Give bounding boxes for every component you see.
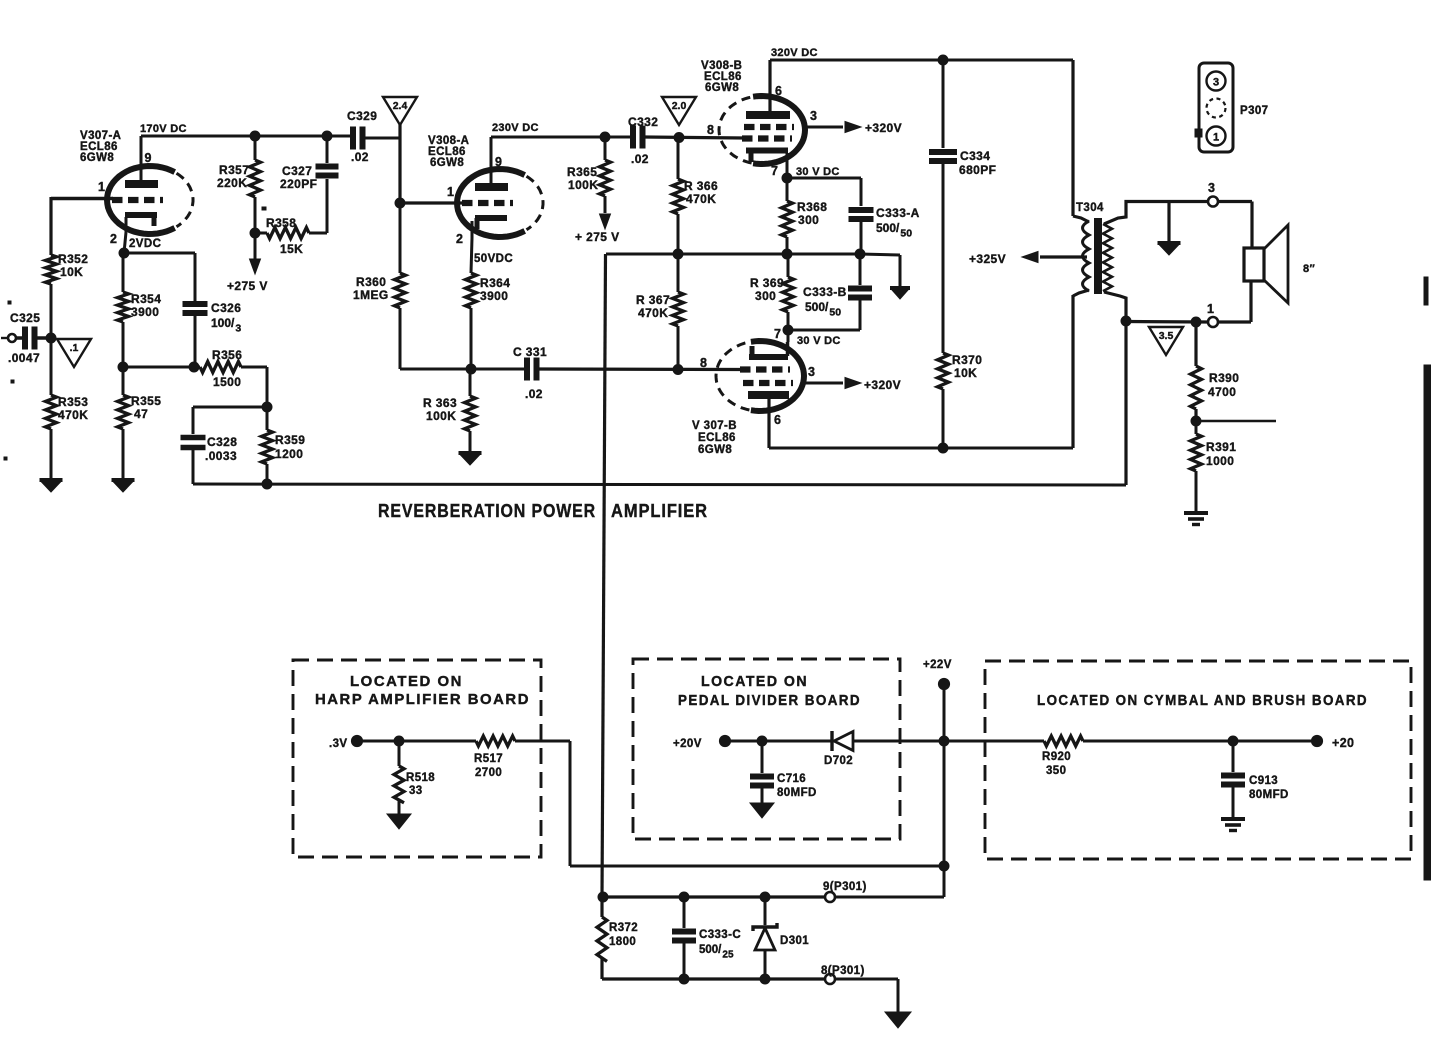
resistor R353 470K	[46, 338, 89, 479]
wire to ground (P301-8)	[897, 979, 900, 1013]
svg-text:1: 1	[1207, 302, 1214, 316]
svg-text:500/25: 500/25	[699, 944, 734, 961]
svg-text:6: 6	[775, 84, 782, 98]
diode D702	[824, 731, 944, 767]
svg-text:320V DC: 320V DC	[771, 47, 818, 59]
svg-text:8″: 8″	[1303, 263, 1316, 275]
svg-text:R518: R518	[406, 772, 435, 784]
junction (C716)	[757, 736, 767, 746]
svg-text:R360: R360	[356, 275, 386, 289]
svg-text:+20: +20	[1332, 736, 1354, 750]
label 30VDC upper	[796, 166, 840, 178]
junction (R390/R391 tap)	[1191, 416, 1276, 426]
junction (R359 / feedback bus)	[262, 479, 272, 489]
svg-text:R372: R372	[609, 922, 638, 934]
svg-text:R357: R357	[219, 163, 249, 177]
svg-text:3: 3	[1213, 77, 1219, 89]
ground (R355)	[112, 480, 135, 492]
V307-A cathode (pin 2)	[110, 215, 161, 253]
junction (+22V / harp wire)	[939, 861, 949, 871]
resistor R517 2700	[474, 736, 570, 779]
svg-text:9: 9	[495, 155, 502, 169]
terminal +20V	[673, 735, 832, 750]
speaker 8 inch	[1244, 225, 1316, 303]
ground (R518)	[387, 814, 411, 829]
svg-text:47: 47	[134, 407, 148, 421]
resistor R363 100K	[423, 369, 476, 451]
resistor R365 100K	[567, 137, 611, 213]
svg-text:C716: C716	[777, 773, 806, 785]
svg-text:500/50: 500/50	[876, 221, 912, 240]
junction (R367 / grid line)	[673, 365, 683, 375]
ground (secondary top)	[1158, 201, 1181, 255]
svg-text:2: 2	[110, 232, 117, 246]
resistor R370 10K	[938, 353, 983, 448]
svg-text:R354: R354	[131, 292, 161, 306]
level note triangle 3.5	[1149, 327, 1183, 355]
ground (P301-8)	[885, 1012, 911, 1028]
scan edge bar	[1424, 277, 1431, 880]
svg-text:80MFD: 80MFD	[777, 787, 817, 799]
svg-text:2: 2	[456, 232, 463, 246]
resistor R391 1000	[1191, 421, 1237, 511]
svg-text:R 366: R 366	[684, 179, 718, 193]
svg-text:C333-A: C333-A	[876, 206, 920, 220]
svg-text:R353: R353	[58, 395, 88, 409]
svg-text:80MFD: 80MFD	[1249, 789, 1289, 801]
junction (long vertical / 22V line)	[598, 892, 608, 902]
svg-text:D702: D702	[824, 755, 853, 767]
svg-text:C326: C326	[211, 301, 241, 315]
svg-text:+325V: +325V	[969, 252, 1006, 266]
wire long vertical to 22V supply	[602, 254, 606, 897]
+275V supply arrow (R365)	[575, 214, 620, 244]
tube V307-A ECL86 6GW8 envelope	[80, 130, 193, 234]
svg-text:REVERBERATION POWER: REVERBERATION POWER	[378, 500, 596, 521]
capacitor C328 .0033	[181, 407, 238, 484]
wire cathode node V307-A	[119, 248, 195, 258]
dashed box HARP AMPLIFIER BOARD	[293, 660, 541, 857]
terminal +20 (cymbal board)	[1311, 735, 1354, 750]
resistor R358 15K	[250, 216, 327, 256]
svg-text:3: 3	[1208, 181, 1215, 195]
V307-A plate (pin 9)	[125, 136, 158, 184]
ground (C333 mid)	[890, 288, 910, 299]
level note triangle 2.4	[383, 97, 417, 125]
svg-text:300: 300	[755, 289, 776, 303]
V308-B control grid (pin 8)	[707, 123, 792, 139]
capacitor C332 .02	[628, 115, 744, 166]
svg-text:470K: 470K	[58, 408, 88, 422]
junction (R366/R367 bias)	[673, 249, 683, 259]
ground (C716)	[750, 803, 774, 818]
svg-text:33: 33	[409, 785, 423, 797]
svg-text:7: 7	[774, 327, 781, 341]
svg-text:1: 1	[1213, 132, 1219, 144]
tube V308-A ECL86 6GW8 envelope	[428, 135, 543, 237]
terminal 3 (P307)	[1208, 181, 1252, 249]
resistor R354 3900	[118, 253, 162, 367]
svg-text:R 363: R 363	[423, 396, 457, 410]
svg-text:.1: .1	[70, 342, 79, 354]
wire 22V to P301-9 line	[835, 896, 944, 899]
V308-A cathode (pin 2)	[456, 218, 513, 273]
svg-text:R355: R355	[131, 394, 161, 408]
svg-text:+20V: +20V	[673, 738, 702, 750]
junction (R357 / 170V rail)	[250, 131, 260, 141]
svg-text:2VDC: 2VDC	[129, 238, 161, 250]
svg-text:C913: C913	[1249, 775, 1278, 787]
svg-text:D301: D301	[780, 935, 809, 947]
wire bottom return	[602, 977, 825, 980]
capacitor C716 80MFD	[750, 741, 817, 805]
svg-text:1: 1	[98, 180, 105, 194]
resistor R518 33	[394, 741, 435, 816]
svg-text:R352: R352	[58, 252, 88, 266]
dashed box CYMBAL AND BRUSH BOARD	[985, 661, 1411, 859]
transformer T304 core	[1094, 218, 1102, 294]
connector P307	[1195, 63, 1268, 152]
input jack node	[1, 334, 16, 342]
svg-text:6GW8: 6GW8	[80, 152, 114, 164]
ground (R391)	[1184, 513, 1208, 525]
capacitor C333-A 500/50	[849, 178, 920, 254]
svg-text:R920: R920	[1042, 751, 1071, 763]
ground (R353)	[40, 480, 63, 492]
svg-text:3: 3	[808, 365, 815, 379]
svg-text:.3V: .3V	[329, 738, 347, 750]
supply arrow +325V (primary CT)	[969, 252, 1087, 267]
svg-text:220K: 220K	[217, 176, 247, 190]
V307-B control grid (pin 8)	[700, 356, 790, 370]
junction (R368/R369)	[782, 249, 792, 259]
svg-text:9: 9	[145, 151, 152, 165]
junction (C334 / 320V rail)	[938, 55, 948, 65]
level note triangle 2.0	[662, 97, 696, 125]
svg-text:3: 3	[810, 109, 817, 123]
svg-text:170V DC: 170V DC	[140, 123, 187, 135]
svg-text:LOCATED ON: LOCATED ON	[350, 674, 463, 690]
svg-text:R365: R365	[567, 165, 597, 179]
svg-text:2.0: 2.0	[672, 100, 687, 112]
wire secondary bottom	[1126, 320, 1208, 324]
V308-A grid (pin 1)	[447, 185, 513, 203]
svg-text:9(P301): 9(P301)	[823, 881, 867, 893]
resistor R372 1800	[597, 897, 638, 979]
svg-text:R368: R368	[797, 200, 827, 214]
svg-text:C328: C328	[207, 435, 237, 449]
svg-text:100/3: 100/3	[211, 316, 241, 335]
svg-text:C333-C: C333-C	[699, 929, 741, 941]
svg-text:.02: .02	[351, 150, 369, 164]
resistor R367 470K	[636, 254, 684, 369]
svg-text:R391: R391	[1206, 440, 1236, 454]
svg-text:3900: 3900	[131, 305, 159, 319]
ground stub (C333 midpoint)	[860, 254, 900, 286]
svg-text:+320V: +320V	[864, 378, 901, 392]
svg-text:.0033: .0033	[205, 449, 237, 463]
svg-text:R358: R358	[266, 216, 296, 230]
junction (R370 / plate wire)	[938, 443, 948, 453]
svg-text:100K: 100K	[568, 178, 598, 192]
svg-text:.0047: .0047	[8, 351, 40, 365]
svg-text:1500: 1500	[213, 375, 241, 389]
ground (R363)	[459, 453, 482, 465]
svg-text:R517: R517	[474, 753, 503, 765]
ground (C913)	[1221, 819, 1245, 831]
svg-text:30 V DC: 30 V DC	[797, 335, 841, 347]
capacitor C329 .02	[347, 109, 400, 164]
svg-text:T304: T304	[1076, 202, 1104, 214]
transformer T304 secondary	[1103, 202, 1208, 322]
tube V307-B ECL86 6GW8 envelope	[692, 341, 804, 456]
wire +22V rail	[943, 684, 946, 897]
svg-text:500/50: 500/50	[805, 300, 841, 319]
svg-text:C334: C334	[960, 149, 990, 163]
capacitor C333-B 500/50	[788, 254, 872, 330]
svg-text:8: 8	[707, 123, 714, 137]
svg-text:LOCATED ON: LOCATED ON	[701, 674, 808, 690]
svg-text:100K: 100K	[426, 409, 456, 423]
svg-text:470K: 470K	[686, 192, 716, 206]
capacitor C325 .0047	[8, 311, 47, 365]
svg-text:2700: 2700	[475, 767, 502, 779]
junction (secondary bottom / feedback)	[1121, 316, 1131, 485]
svg-text:+320V: +320V	[865, 121, 902, 135]
terminal 9(P301)	[603, 881, 867, 902]
svg-text:15K: 15K	[280, 242, 303, 256]
svg-text:+ 275 V: + 275 V	[575, 230, 620, 244]
svg-text:R356: R356	[212, 348, 242, 362]
svg-text:350: 350	[1046, 765, 1066, 777]
title REVERBERATION POWER AMPLIFIER	[378, 500, 708, 521]
level note triangle .1	[57, 339, 91, 367]
junction (C913)	[1228, 736, 1238, 746]
svg-text:2.4: 2.4	[393, 100, 408, 112]
svg-text:1800: 1800	[609, 936, 636, 948]
svg-text:P307: P307	[1240, 105, 1268, 117]
svg-text:1000: 1000	[1206, 454, 1234, 468]
node C junction (R356 / R359 / C328 loop)	[193, 367, 272, 412]
svg-text:R 369: R 369	[750, 276, 784, 290]
svg-text:3900: 3900	[480, 289, 508, 303]
wire V307-B plate to transformer	[769, 447, 1073, 450]
node B junction (R354 / C326 / R356)	[118, 362, 200, 372]
svg-text:R390: R390	[1209, 371, 1239, 385]
svg-text:1MEG: 1MEG	[353, 288, 389, 302]
junction (C333-A/C333-B)	[855, 249, 865, 259]
svg-text:C327: C327	[282, 164, 312, 178]
svg-text:1200: 1200	[275, 447, 303, 461]
resistor R364 3900	[466, 273, 511, 369]
svg-text:+22V: +22V	[923, 659, 952, 671]
svg-text:R 367: R 367	[636, 293, 670, 307]
svg-text:PEDAL DIVIDER BOARD: PEDAL DIVIDER BOARD	[678, 693, 861, 709]
svg-text:680PF: 680PF	[959, 163, 996, 177]
junction (R366 / grid V308-B)	[674, 133, 684, 143]
svg-text:8: 8	[700, 356, 707, 370]
resistor R357 220K	[217, 136, 261, 233]
V308-B cathode (pin 7)	[746, 151, 788, 179]
tube V308-B ECL86 6GW8 envelope	[701, 60, 805, 164]
V308-B plate (pin 6)	[746, 60, 790, 115]
resistor R352 10K	[46, 252, 89, 338]
wire grid V307-A pin1	[51, 197, 113, 255]
capacitor C326 100/3	[183, 253, 242, 367]
svg-text:6GW8: 6GW8	[705, 82, 739, 94]
junction V307-B cathode node	[783, 325, 793, 342]
svg-text:HARP AMPLIFIER BOARD: HARP AMPLIFIER BOARD	[315, 692, 530, 708]
resistor R366 470K	[673, 137, 719, 254]
svg-text:6GW8: 6GW8	[430, 157, 464, 169]
svg-text:30 V DC: 30 V DC	[796, 166, 840, 178]
svg-text:1: 1	[447, 185, 454, 199]
resistor R355 47	[118, 367, 162, 479]
svg-text:ECL86: ECL86	[698, 432, 736, 444]
wire 320VDC rail	[770, 47, 1073, 60]
junction V308-B cathode node	[782, 173, 861, 183]
wire V308-A cathode to C331	[400, 364, 527, 374]
resistor R390 4700	[1191, 317, 1240, 421]
svg-text:C329: C329	[347, 109, 377, 123]
junction (R365 / 230V rail)	[600, 132, 610, 142]
svg-text:AMPLIFIER: AMPLIFIER	[611, 500, 708, 521]
V307-B cathode (pin 7)	[749, 342, 788, 357]
svg-text:C333-B: C333-B	[803, 285, 847, 299]
wire harp board output	[570, 741, 944, 866]
svg-text:+275 V: +275 V	[227, 279, 268, 293]
junction (+22V / D702)	[939, 736, 949, 746]
resistor R368 300	[782, 178, 828, 254]
svg-text:LOCATED ON CYMBAL AND BRUSH BO: LOCATED ON CYMBAL AND BRUSH BOARD	[1037, 693, 1368, 709]
svg-text:6GW8: 6GW8	[698, 444, 732, 456]
resistor R369 300	[750, 254, 794, 330]
svg-text:300: 300	[798, 213, 819, 227]
V307-B screen grid (pin 3)	[743, 365, 815, 383]
V307-A grid (pin 1)	[98, 180, 163, 200]
svg-text:R359: R359	[275, 433, 305, 447]
V308-A plate (pin 9)	[475, 137, 508, 187]
label 30VDC lower	[774, 327, 841, 347]
svg-text:4700: 4700	[1208, 385, 1236, 399]
capacitor C327 220PF	[280, 136, 339, 233]
svg-text:7: 7	[771, 164, 778, 178]
capacitor C334 680PF	[929, 60, 996, 353]
wire 22V into cymbal board	[944, 740, 1044, 743]
capacitor C913 80MFD	[1221, 741, 1289, 818]
svg-text:230V DC: 230V DC	[492, 122, 539, 134]
terminal .3V	[329, 735, 476, 750]
svg-text:8(P301): 8(P301)	[821, 965, 865, 977]
svg-text:V 307-B: V 307-B	[692, 420, 737, 432]
terminal 8(P301)	[821, 965, 898, 984]
terminal +22V	[923, 659, 952, 690]
svg-text:.02: .02	[525, 387, 543, 401]
svg-text:C325: C325	[10, 311, 40, 325]
svg-text:R370: R370	[952, 353, 982, 367]
supply arrow +320V (V307-B pin3)	[804, 378, 901, 393]
node A junction (C325 / R352 / R353)	[46, 333, 56, 343]
transformer T304 primary	[1073, 60, 1104, 448]
capacitor C331 .02	[513, 345, 742, 401]
terminal 1 (P307)	[1207, 280, 1251, 327]
junction (R518)	[394, 736, 404, 746]
svg-text:C 331: C 331	[513, 345, 547, 359]
wire 170VDC plate rail	[140, 123, 354, 136]
wire C329 to grid V308-A	[395, 124, 464, 208]
svg-text:470K: 470K	[638, 306, 668, 320]
wire cathode-bias line 22V	[606, 253, 861, 256]
dashed box PEDAL DIVIDER BOARD	[633, 659, 900, 839]
resistor R359 1200	[262, 407, 306, 484]
V308-B screen grid (pin 3)	[744, 109, 817, 127]
svg-text:220PF: 220PF	[280, 177, 317, 191]
resistor R920 350	[1042, 736, 1312, 777]
scan specks	[4, 207, 266, 460]
svg-text:10K: 10K	[954, 366, 977, 380]
wire 230VDC plate rail	[491, 122, 633, 137]
resistor R360 1MEG	[353, 203, 471, 369]
svg-text:3.5: 3.5	[1159, 330, 1174, 342]
svg-text:.02: .02	[631, 152, 649, 166]
capacitor C333-C 500/25	[672, 892, 741, 984]
svg-text:6: 6	[774, 413, 781, 427]
svg-text:R364: R364	[480, 276, 510, 290]
wire feedback bus	[193, 484, 1126, 485]
+275V supply arrow (R357)	[227, 233, 268, 293]
resistor R356 1500	[200, 348, 267, 389]
svg-text:10K: 10K	[60, 265, 83, 279]
supply arrow +320V (V308-B plate... pin3)	[805, 121, 902, 135]
svg-text:C332: C332	[628, 115, 658, 129]
svg-text:50VDC: 50VDC	[474, 253, 513, 265]
V307-B plate (pin 6)	[748, 395, 789, 448]
zener diode D301	[753, 892, 809, 984]
junction (C327 / 170V rail)	[322, 131, 332, 141]
